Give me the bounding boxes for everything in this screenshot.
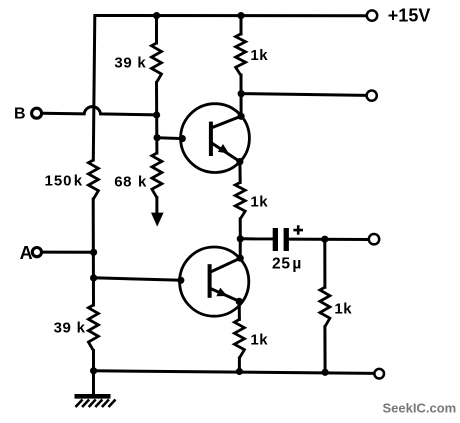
svg-text:k: k: [77, 319, 86, 336]
svg-text:k: k: [74, 172, 83, 189]
svg-text:39: 39: [54, 319, 72, 336]
svg-text:k: k: [138, 174, 147, 191]
svg-text:150: 150: [45, 172, 73, 189]
svg-text:A: A: [20, 243, 33, 263]
svg-text:39: 39: [114, 54, 132, 71]
svg-text:µ: µ: [292, 256, 301, 273]
svg-text:1k: 1k: [250, 193, 268, 210]
svg-text:B: B: [14, 106, 26, 123]
svg-text:1k: 1k: [250, 47, 268, 64]
svg-text:+15V: +15V: [388, 6, 431, 26]
svg-text:1k: 1k: [250, 332, 268, 349]
svg-text:SeekIC.com: SeekIC.com: [383, 400, 457, 415]
svg-text:1k: 1k: [334, 300, 352, 317]
svg-text:68: 68: [114, 174, 132, 191]
svg-text:25: 25: [272, 256, 291, 273]
svg-text:k: k: [137, 54, 146, 71]
